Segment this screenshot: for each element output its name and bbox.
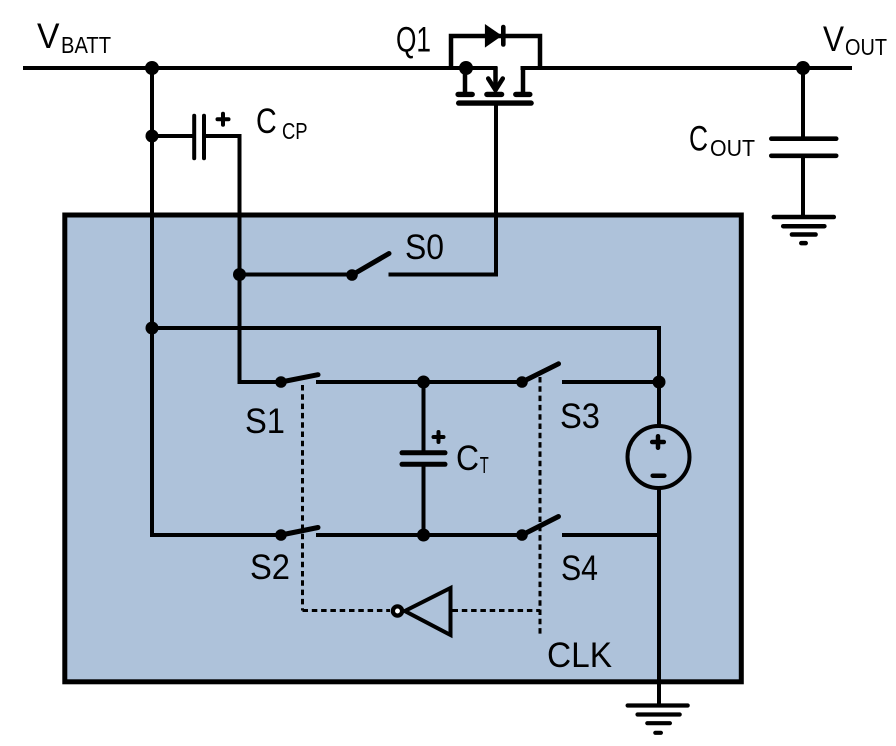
wire S0 right contact [389,273,499,277]
wire C_CP left lead [150,134,193,138]
wire internal rail to current source [150,326,661,330]
label V_OUT [823,19,887,60]
svg-text:S3: S3 [560,396,600,436]
wire V_BATT top rail [23,66,498,70]
wire Q1 drain to V_OUT rail [521,66,853,70]
transistor Q1 body-diode loop wire [451,36,540,68]
switch S1 pivot node [275,376,287,388]
wire S3 right contact [562,380,661,384]
ground at current source return [628,706,688,733]
wire bottom rail to S2 [150,533,281,537]
wire C_T bottom lead [422,467,426,538]
svg-text:V: V [823,19,844,59]
dashed control net from inverter output to S1/S2 [303,385,391,611]
voltage source V1 [628,426,690,488]
svg-text:S1: S1 [245,401,285,441]
junction node C_T top [417,376,430,389]
svg-text:Q1: Q1 [396,20,431,60]
switch S0 pivot node [346,269,358,281]
svg-text:S0: S0 [405,227,444,267]
junction node C_CP tap [146,130,159,143]
switch S4 lever [522,517,559,536]
svg-text:T: T [480,452,489,478]
junction node Q1 source [459,61,473,75]
wire C_CP bottom vertical to S1 [238,134,242,384]
switch S0 lever [352,254,389,276]
label C_T [456,438,489,478]
inverter U2 [393,588,451,635]
transistor Q1 [458,66,531,103]
ground at C_OUT [774,217,834,243]
svg-text:S2: S2 [250,547,290,587]
junction node internal rail [146,322,159,335]
svg-text:S4: S4 [561,548,598,588]
switch S2 pivot node [275,529,287,541]
svg-text:CP: CP [282,118,308,144]
label C_CP [256,101,308,144]
wire corner to S1 pivot [238,380,282,384]
junction node S0 left [233,268,246,281]
switch S2 lever [281,528,318,536]
capacitor C_T [402,432,445,464]
wire S0 left lead [240,273,353,277]
wire Q1 gate lead [494,103,498,277]
label V_BATT [37,16,111,58]
controller box U1 [65,215,742,682]
svg-text:BATT: BATT [61,32,111,58]
switch S3 pivot node [516,376,528,388]
junction node C_T bottom [417,529,430,542]
capacitor C_CP [194,114,228,159]
wire current source bottom lead to ground [657,486,661,706]
wire V_BATT vertical branch [150,66,154,537]
capacitor C_OUT [771,68,836,216]
wire C_T top lead [422,380,426,451]
diode D1 [485,24,503,48]
switch S4 pivot node [516,529,528,541]
wire current source top lead [657,326,661,428]
svg-text:V: V [37,16,60,56]
svg-text:C: C [456,438,479,478]
svg-text:OUT: OUT [710,135,755,161]
svg-text:C: C [256,101,277,141]
svg-text:C: C [689,119,708,159]
junction node V_BATT [145,61,159,75]
switch S3 lever [522,364,559,382]
junction node source top [653,376,666,389]
wire C_CP right lead [206,134,242,138]
dashed control net CLK to S3/S4 and inverter input [453,377,541,636]
junction node V_OUT [796,61,810,75]
svg-text:CLK: CLK [547,635,612,675]
wire S1 right contact to C_T and S3 pivot [316,380,522,384]
wire S4 right contact [562,533,661,537]
wire S2 right contact to C_T and S4 pivot [316,533,522,537]
switch S1 lever [281,375,318,382]
label C_OUT [689,119,755,161]
svg-text:OUT: OUT [845,34,887,60]
